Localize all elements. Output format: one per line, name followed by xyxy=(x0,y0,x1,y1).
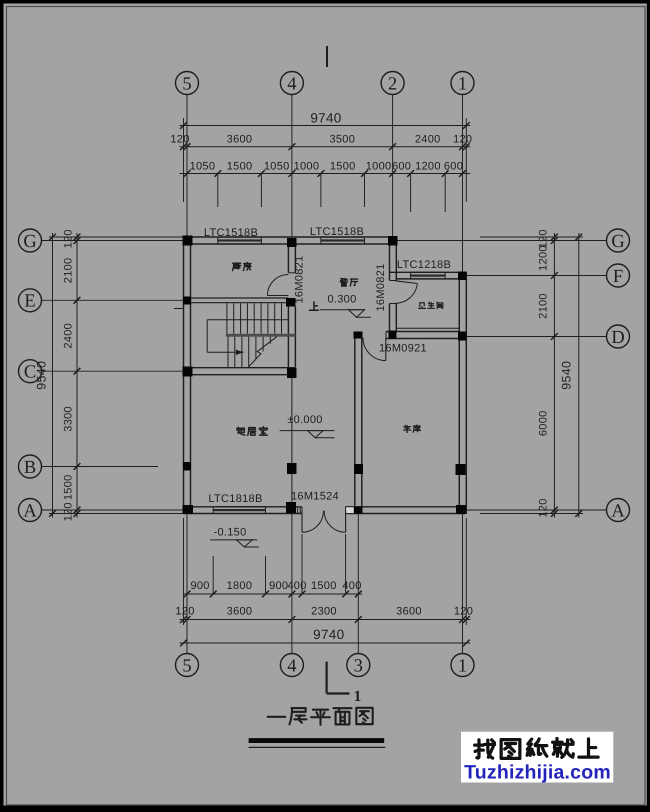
title underline thick xyxy=(249,738,385,743)
axis bubble G right xyxy=(607,229,630,252)
exterior wall A (south), right of entry xyxy=(346,507,467,514)
axis line 4 (bottom) xyxy=(291,514,293,655)
left face extension lines xyxy=(49,237,184,514)
axis line G (left) xyxy=(41,240,184,242)
axis line A (right) xyxy=(466,509,607,511)
svg-text:1500: 1500 xyxy=(330,160,356,172)
svg-text:Tuzhizhijia.com: Tuzhizhijia.com xyxy=(464,762,611,784)
axis bubble B left xyxy=(19,455,42,478)
bathroom floor edge line xyxy=(396,327,459,329)
svg-text:F: F xyxy=(613,267,623,287)
svg-text:1800: 1800 xyxy=(227,580,253,592)
axis line 4 (top) xyxy=(291,94,293,237)
axis bubble F right xyxy=(607,264,630,287)
stair break line xyxy=(249,337,277,367)
door 16M0821 kitchen (leaf + swing arc) xyxy=(267,275,288,296)
exterior wall A (south), left of entry xyxy=(184,507,303,514)
svg-text:2100: 2100 xyxy=(537,293,549,319)
axis bubble E left xyxy=(19,289,42,312)
axis bubble G left xyxy=(19,229,42,252)
svg-text:3300: 3300 xyxy=(62,406,74,432)
svg-text:4: 4 xyxy=(287,656,296,676)
room label 餐厅 (dining) xyxy=(340,279,357,286)
column ax1/F xyxy=(458,272,467,281)
svg-text:1: 1 xyxy=(458,74,467,94)
wall F (bathroom north) xyxy=(390,272,467,279)
window LTC1818B living room (wall A) xyxy=(213,507,265,514)
svg-text:9740: 9740 xyxy=(310,111,341,126)
axis bubble A left xyxy=(19,499,42,522)
column ax3/B xyxy=(354,464,363,474)
axis line 1 (top) xyxy=(462,94,464,272)
stair treads lower flight xyxy=(228,337,270,368)
svg-text:LTC1818B: LTC1818B xyxy=(208,493,262,505)
level mark 0.300 (dining) xyxy=(320,294,371,318)
axis bubble C left xyxy=(19,360,42,383)
column ax4/C xyxy=(287,368,297,378)
svg-text:16M1524: 16M1524 xyxy=(291,491,339,503)
svg-text:1500: 1500 xyxy=(311,580,337,592)
svg-text:LTC1518B: LTC1518B xyxy=(204,227,258,239)
watermark box 找图纸就上 Tuzhizhijia.com xyxy=(461,732,613,784)
axis bubble 4 top xyxy=(280,72,303,95)
svg-text:1500: 1500 xyxy=(62,474,74,500)
axis line 2 (top) xyxy=(392,94,394,237)
svg-text:D: D xyxy=(611,328,624,348)
column ax4/G xyxy=(287,238,297,247)
door 16M0821 bathroom (leaf + swing arc) xyxy=(395,281,417,304)
door 16M1524 entry double door xyxy=(302,511,346,533)
west wall tick at stair xyxy=(174,308,184,310)
svg-text:1200: 1200 xyxy=(537,245,549,271)
top extension lines xyxy=(184,118,467,212)
svg-text:2: 2 xyxy=(388,74,397,94)
svg-text:0.300: 0.300 xyxy=(327,294,356,306)
svg-text:600: 600 xyxy=(444,160,463,172)
svg-text:400: 400 xyxy=(287,580,306,592)
svg-text:2100: 2100 xyxy=(62,258,74,284)
svg-text:3500: 3500 xyxy=(329,134,355,146)
axis line B (left) xyxy=(41,466,158,468)
axis line D (right) xyxy=(466,336,607,338)
title underline thin xyxy=(249,746,386,748)
column ax1/D xyxy=(458,332,467,341)
room label 卫生间 (bathroom) xyxy=(419,302,443,308)
wall D (garage north) xyxy=(386,332,459,339)
axis bubble 5 bottom xyxy=(176,654,199,677)
svg-text:120: 120 xyxy=(175,606,194,618)
top dimension row window openings xyxy=(180,160,471,177)
svg-text:B: B xyxy=(24,458,36,478)
axis bubble 3 bottom xyxy=(347,654,370,677)
wall axis-4 mid (E column to C) xyxy=(288,307,295,368)
svg-text:2400: 2400 xyxy=(62,323,74,349)
left dimension column overall 9540 xyxy=(35,233,56,518)
door 16M0921 garage (leaf + swing arc) xyxy=(363,338,386,361)
level mark -0.150 (entry) xyxy=(210,527,259,548)
svg-text:G: G xyxy=(23,232,36,252)
svg-text:±0.000: ±0.000 xyxy=(287,414,322,426)
svg-text:1000: 1000 xyxy=(294,160,320,172)
axis line F (right) xyxy=(466,275,607,277)
entry door jamb marks xyxy=(298,507,355,514)
column ax1/A xyxy=(456,505,466,514)
door label 16M0821 kitchen xyxy=(293,256,305,304)
svg-text:1: 1 xyxy=(354,688,362,705)
svg-text:120: 120 xyxy=(62,502,74,521)
wall axis-2 upper (east exterior, G to door) xyxy=(390,237,397,281)
svg-text:1050: 1050 xyxy=(190,160,216,172)
column ax5/A xyxy=(183,505,194,514)
column ax2/D xyxy=(389,331,397,339)
svg-text:16M0821: 16M0821 xyxy=(375,264,387,312)
window LTC1218B bathroom (wall F) xyxy=(411,272,446,279)
svg-text:120: 120 xyxy=(170,134,189,146)
column ax4/A xyxy=(286,502,296,513)
exterior wall G (north) xyxy=(184,237,397,244)
wall axis-2 lower (door to D) xyxy=(390,304,397,332)
svg-text:1050: 1050 xyxy=(264,160,290,172)
section mark 1 (L-shaped cut mark) xyxy=(327,662,362,705)
svg-text:900: 900 xyxy=(190,580,209,592)
wall axis-3 (garage west) xyxy=(355,339,362,507)
svg-text:9740: 9740 xyxy=(313,627,344,642)
door label 16M1524 xyxy=(291,491,339,503)
svg-text:A: A xyxy=(611,501,625,521)
bottom extension lines xyxy=(184,518,467,625)
exterior wall axis-1 (east) xyxy=(459,272,466,513)
axis line 3 (bottom) xyxy=(357,514,359,655)
svg-text:120: 120 xyxy=(537,498,549,517)
svg-text:5: 5 xyxy=(182,656,191,676)
column ax3/A xyxy=(354,507,363,514)
bottom dimension row door/window openings xyxy=(184,580,363,597)
room label 厨房 (kitchen) xyxy=(233,262,251,270)
axis bubble 1 top xyxy=(451,72,474,95)
svg-text:600: 600 xyxy=(392,160,411,172)
door label 16M0821 bathroom xyxy=(375,264,387,312)
svg-text:5: 5 xyxy=(182,74,191,94)
axis line G (right) xyxy=(396,240,607,242)
right face extension lines xyxy=(480,237,583,514)
window label LTC1518B dining xyxy=(310,226,364,238)
svg-text:3600: 3600 xyxy=(227,606,253,618)
svg-text:2300: 2300 xyxy=(311,606,337,618)
stair direction arrow xyxy=(207,350,243,355)
axis line E (left) xyxy=(41,299,184,301)
svg-text:16M0921: 16M0921 xyxy=(379,343,427,355)
svg-text:2400: 2400 xyxy=(415,134,441,146)
column ax5/G xyxy=(183,236,193,246)
svg-text:120: 120 xyxy=(453,134,472,146)
axis bubble 5 top xyxy=(176,72,199,95)
column ax5/C xyxy=(183,367,193,377)
stair handrail bar xyxy=(226,334,296,337)
top dimension row 120/3600/3500/2400/120 xyxy=(170,134,472,151)
axis line 5 (top) xyxy=(186,94,188,237)
svg-text:9540: 9540 xyxy=(35,361,49,390)
wall C (stair south) xyxy=(184,368,296,375)
svg-text:4: 4 xyxy=(287,74,296,94)
stair treads upper flight xyxy=(227,303,282,334)
svg-text:-0.150: -0.150 xyxy=(214,527,247,539)
axis line A (left) xyxy=(41,509,184,511)
column ax4/B xyxy=(287,463,297,474)
svg-text:LTC1218B: LTC1218B xyxy=(397,259,451,271)
window label LTC1218B bathroom xyxy=(397,259,451,271)
column ax1/B xyxy=(456,464,466,475)
top dimension row overall 9740 xyxy=(180,111,471,129)
axis line C (left) xyxy=(41,370,184,372)
exterior wall axis-5 (west) xyxy=(184,237,191,514)
column ax5/B xyxy=(183,462,191,471)
right dimension column overall 9540 xyxy=(559,233,582,518)
svg-text:G: G xyxy=(611,232,624,252)
right dimension column 120/1200/2100/6000/120 xyxy=(537,229,557,517)
column ax4/E xyxy=(286,298,296,307)
axis bubble A right xyxy=(607,499,630,522)
axis line 1 (bottom) xyxy=(462,514,464,655)
room label 起居室 (living room) xyxy=(237,427,268,436)
stair guide lines xyxy=(207,320,288,353)
svg-text:120: 120 xyxy=(62,229,74,248)
left dimension column 120/2100/2400/3300/1500/120 xyxy=(62,229,80,521)
axis bubble 4 bottom xyxy=(280,654,303,677)
axis bubble 1 bottom xyxy=(451,654,474,677)
window label LTC1518B kitchen xyxy=(204,227,258,239)
svg-text:1: 1 xyxy=(458,656,467,676)
svg-text:LTC1518B: LTC1518B xyxy=(310,226,364,238)
column ax5/E xyxy=(183,297,191,305)
title 一层平面图 xyxy=(268,708,373,725)
svg-text:120: 120 xyxy=(454,606,473,618)
svg-text:E: E xyxy=(24,292,35,312)
door label 16M0921 xyxy=(379,343,427,355)
window LTC1518B dining (wall G) xyxy=(321,237,365,244)
wall E (kitchen south) xyxy=(191,298,289,303)
window label LTC1818B living room xyxy=(208,493,262,505)
svg-text:3: 3 xyxy=(354,656,363,676)
svg-text:1500: 1500 xyxy=(227,160,253,172)
bottom dimension row overall 9740 xyxy=(180,627,471,646)
level mark ±0.000 (living room) xyxy=(280,414,335,438)
svg-text:1000: 1000 xyxy=(366,160,392,172)
svg-text:1200: 1200 xyxy=(415,160,441,172)
room label 车库 (garage) xyxy=(404,425,421,432)
axis line 5 (bottom) xyxy=(186,514,188,655)
svg-text:9540: 9540 xyxy=(559,361,573,390)
svg-text:6000: 6000 xyxy=(537,410,549,436)
axis bubble 2 top xyxy=(381,72,404,95)
svg-text:900: 900 xyxy=(269,580,288,592)
window LTC1518B kitchen (wall G) xyxy=(218,237,262,244)
axis bubble D right xyxy=(607,325,630,348)
axis-4 line C to A xyxy=(291,375,293,507)
section mark top tick xyxy=(326,46,328,67)
column ax2/G xyxy=(388,236,398,246)
svg-text:A: A xyxy=(23,501,37,521)
svg-text:3600: 3600 xyxy=(227,134,253,146)
wall axis-4 upper (kitchen/dining, G to door) xyxy=(288,244,295,273)
bottom dimension row 120/3600/2300/3600/120 xyxy=(175,606,473,623)
svg-text:16M0821: 16M0821 xyxy=(293,256,305,304)
svg-text:3600: 3600 xyxy=(396,606,422,618)
column ax3/D xyxy=(354,332,363,339)
stair up label 上 xyxy=(310,302,319,310)
